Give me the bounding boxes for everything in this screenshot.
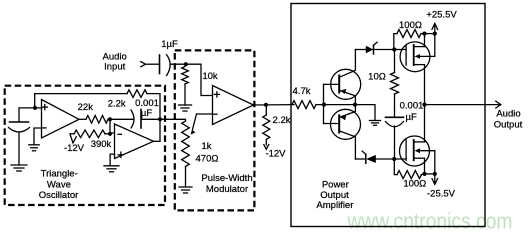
svg-text:+25.5V: +25.5V	[426, 10, 457, 21]
svg-text:2.2k: 2.2k	[108, 99, 126, 110]
svg-text:1µF: 1µF	[161, 39, 178, 50]
svg-text:10Ω: 10Ω	[368, 72, 386, 83]
svg-text:Triangle-: Triangle-	[41, 169, 78, 180]
svg-text:470Ω: 470Ω	[196, 154, 219, 165]
svg-text:µF: µF	[141, 108, 152, 119]
svg-text:100Ω: 100Ω	[403, 178, 426, 189]
svg-text:1k: 1k	[201, 141, 211, 152]
svg-text:µF: µF	[406, 112, 417, 123]
svg-text:Modulator: Modulator	[206, 184, 248, 195]
svg-text:2.2k: 2.2k	[273, 115, 291, 126]
svg-text:22k: 22k	[78, 102, 94, 113]
svg-text:-12V: -12V	[64, 143, 85, 154]
svg-text:Audio: Audio	[496, 109, 520, 120]
svg-text:390k: 390k	[91, 139, 112, 150]
svg-text:-12V: -12V	[265, 148, 286, 159]
svg-text:10k: 10k	[202, 71, 218, 82]
svg-text:Amplifier: Amplifier	[316, 200, 353, 211]
svg-text:Input: Input	[104, 62, 125, 73]
svg-text:Oscillator: Oscillator	[39, 190, 79, 201]
svg-text:www.cntronics.com: www.cntronics.com	[347, 209, 513, 234]
svg-text:Pulse-Width: Pulse-Width	[201, 173, 252, 184]
svg-text:-25.5V: -25.5V	[427, 189, 456, 200]
svg-text:100Ω: 100Ω	[399, 20, 422, 31]
svg-text:0.001: 0.001	[400, 101, 424, 112]
svg-text:4.7k: 4.7k	[293, 86, 311, 97]
svg-text:Output: Output	[494, 120, 523, 131]
